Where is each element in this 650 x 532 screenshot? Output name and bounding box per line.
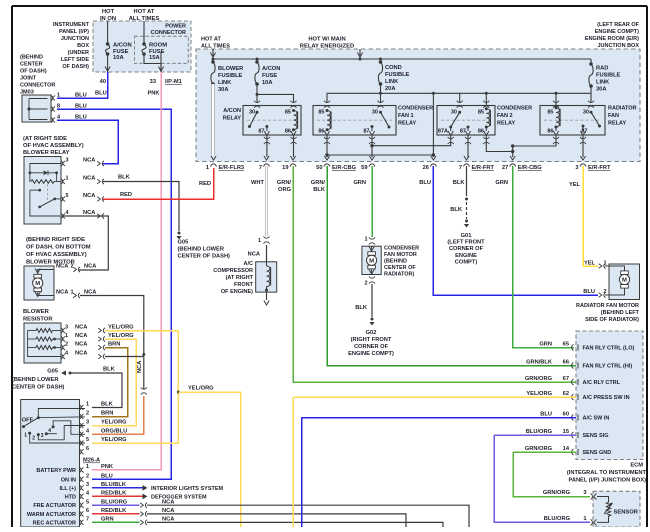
svg-text:NCA: NCA [75, 342, 87, 348]
svg-text:FAN 2: FAN 2 [497, 113, 513, 119]
svg-text:HOT AT: HOT AT [201, 37, 221, 43]
svg-text:BOX: BOX [77, 43, 89, 49]
svg-text:30: 30 [372, 110, 378, 116]
svg-text:20A: 20A [385, 86, 395, 92]
svg-text:RELAY ENERGIZED: RELAY ENERGIZED [300, 44, 354, 50]
svg-text:1: 1 [206, 165, 209, 171]
svg-text:DEFOGGER SYSTEM: DEFOGGER SYSTEM [151, 495, 207, 501]
svg-text:PANEL (I/P) JUNCTION BOX): PANEL (I/P) JUNCTION BOX) [568, 478, 646, 484]
svg-text:G05: G05 [47, 369, 58, 375]
svg-text:7: 7 [459, 165, 462, 171]
svg-text:85: 85 [478, 110, 484, 116]
svg-text:3: 3 [65, 325, 68, 331]
svg-text:85: 85 [285, 110, 291, 116]
svg-text:FAN: FAN [608, 113, 619, 119]
svg-text:OF DASH, ON BOTTOM: OF DASH, ON BOTTOM [26, 245, 91, 251]
svg-text:YEL/ORG: YEL/ORG [526, 391, 552, 397]
svg-text:BLU: BLU [95, 91, 107, 97]
svg-text:GRN/: GRN/ [311, 180, 326, 186]
svg-text:M: M [622, 278, 627, 284]
svg-text:ORG/BLU: ORG/BLU [101, 429, 127, 435]
svg-text:OF DASH): OF DASH) [62, 64, 89, 70]
svg-text:86: 86 [318, 129, 324, 135]
svg-text:10A: 10A [262, 80, 272, 86]
svg-text:33: 33 [150, 79, 156, 85]
svg-text:CONDENSER: CONDENSER [384, 246, 419, 252]
svg-text:67: 67 [563, 376, 569, 382]
svg-text:RELAY: RELAY [223, 116, 241, 122]
svg-text:WHT: WHT [251, 180, 264, 186]
svg-text:HTD: HTD [65, 494, 76, 500]
svg-text:85: 85 [547, 110, 553, 116]
svg-text:66: 66 [563, 360, 569, 366]
svg-text:E/R-CBG: E/R-CBG [518, 165, 543, 171]
svg-text:RESISTOR: RESISTOR [23, 317, 53, 323]
svg-text:PNK: PNK [148, 91, 161, 97]
svg-text:BLK: BLK [313, 187, 326, 193]
svg-text:BATTERY PWR: BATTERY PWR [36, 468, 76, 474]
svg-text:GRN/: GRN/ [277, 180, 292, 186]
svg-text:2: 2 [364, 281, 367, 287]
svg-text:2: 2 [86, 474, 89, 480]
svg-text:60: 60 [563, 412, 569, 418]
svg-text:BRN: BRN [101, 411, 113, 417]
svg-text:SIDE OF RADIATOR): SIDE OF RADIATOR) [585, 317, 639, 323]
svg-text:G02: G02 [366, 330, 377, 336]
svg-text:85: 85 [318, 110, 324, 116]
svg-text:LINK: LINK [596, 80, 610, 86]
svg-text:ON IN: ON IN [61, 477, 76, 483]
svg-text:19: 19 [282, 165, 288, 171]
svg-text:(UNDER: (UNDER [68, 50, 89, 56]
svg-text:NCA: NCA [56, 264, 68, 270]
svg-text:GRN: GRN [539, 342, 552, 348]
svg-text:BLU: BLU [419, 180, 431, 186]
svg-text:SENS SIG: SENS SIG [583, 433, 609, 439]
svg-text:GRN/BLK: GRN/BLK [526, 360, 553, 366]
svg-text:BLOWER RELAY: BLOWER RELAY [23, 150, 70, 156]
svg-text:(BEHIND LOWER: (BEHIND LOWER [12, 377, 58, 383]
svg-text:RADIATOR: RADIATOR [608, 106, 637, 112]
svg-text:YEL/ORG: YEL/ORG [108, 333, 134, 339]
svg-text:ENGINE ROOM (E/R): ENGINE ROOM (E/R) [585, 36, 639, 42]
svg-text:6: 6 [86, 446, 89, 452]
svg-text:CENTER OF: CENTER OF [384, 265, 416, 271]
svg-text:(BEHIND: (BEHIND [384, 259, 407, 265]
svg-text:GRN/ORG: GRN/ORG [525, 446, 553, 452]
svg-text:1: 1 [258, 238, 261, 244]
svg-text:COMPT): COMPT) [455, 259, 478, 265]
svg-text:NCA: NCA [75, 333, 87, 339]
svg-text:NCA: NCA [248, 252, 260, 258]
svg-text:CONDENSER: CONDENSER [398, 106, 433, 112]
svg-text:NCA: NCA [162, 508, 174, 514]
svg-text:A/CON: A/CON [262, 66, 280, 72]
svg-text:30: 30 [583, 110, 589, 116]
svg-text:OF DASH): OF DASH) [20, 69, 47, 75]
svg-text:NCA: NCA [83, 176, 95, 182]
svg-text:CONDENSER: CONDENSER [497, 106, 532, 112]
svg-text:NCA: NCA [162, 499, 174, 505]
svg-text:1: 1 [66, 176, 69, 182]
svg-text:86: 86 [547, 129, 553, 135]
svg-text:1: 1 [364, 237, 367, 243]
svg-text:E/R-CBG: E/R-CBG [332, 165, 357, 171]
svg-text:M: M [35, 281, 40, 287]
svg-text:OFF: OFF [22, 418, 34, 424]
svg-text:GRN/ORG: GRN/ORG [525, 376, 553, 382]
svg-text:CENTER: CENTER [20, 62, 43, 68]
svg-text:OF ENGINE): OF ENGINE) [221, 289, 253, 295]
svg-text:1: 1 [86, 464, 89, 470]
svg-text:G05: G05 [178, 240, 189, 246]
svg-text:M26-A: M26-A [83, 458, 100, 464]
svg-text:NCA: NCA [83, 158, 95, 164]
svg-text:ALL TIMES: ALL TIMES [201, 44, 230, 50]
svg-text:CONNECTOR: CONNECTOR [151, 30, 186, 36]
svg-text:RELAY: RELAY [608, 121, 626, 127]
svg-text:NCA: NCA [56, 290, 68, 296]
svg-text:CENTER OF DASH): CENTER OF DASH) [12, 385, 65, 391]
svg-text:RELAY: RELAY [497, 121, 515, 127]
svg-text:7: 7 [259, 165, 262, 171]
svg-text:COMPRESSOR: COMPRESSOR [213, 268, 253, 274]
svg-text:40: 40 [100, 79, 106, 85]
svg-text:LINK: LINK [218, 80, 232, 86]
svg-text:OF HVAC ASSEMBLY): OF HVAC ASSEMBLY) [23, 143, 84, 149]
svg-text:15: 15 [563, 429, 569, 435]
svg-text:1: 1 [583, 516, 586, 522]
svg-text:E/R-FRT: E/R-FRT [588, 165, 611, 171]
svg-text:HOT: HOT [102, 9, 115, 15]
svg-text:4: 4 [48, 428, 51, 434]
svg-text:YEL/ORG: YEL/ORG [188, 386, 214, 392]
svg-text:6: 6 [86, 508, 89, 514]
svg-text:2: 2 [65, 342, 68, 348]
svg-text:2: 2 [71, 264, 74, 270]
svg-text:(BEHIND LEFT: (BEHIND LEFT [601, 310, 640, 316]
svg-text:I/P-M1: I/P-M1 [165, 79, 182, 85]
svg-text:PNK: PNK [101, 464, 114, 470]
svg-text:15A: 15A [149, 55, 160, 61]
svg-text:GRN: GRN [353, 180, 366, 186]
svg-text:87A: 87A [438, 129, 448, 135]
svg-text:FRONT: FRONT [234, 282, 254, 288]
svg-text:GRN/ORG: GRN/ORG [543, 490, 571, 496]
svg-text:(LEFT FRONT: (LEFT FRONT [447, 240, 485, 246]
svg-text:YEL: YEL [584, 260, 596, 266]
svg-text:5: 5 [86, 499, 89, 505]
svg-text:HOT W/ MAIN: HOT W/ MAIN [308, 37, 345, 43]
svg-text:NCA: NCA [83, 210, 95, 216]
svg-text:ORG: ORG [278, 187, 292, 193]
svg-text:OF HVAC ASSEMBLY): OF HVAC ASSEMBLY) [26, 252, 87, 258]
svg-text:(BEHIND LOWER: (BEHIND LOWER [178, 247, 224, 253]
svg-text:YEL/ORG: YEL/ORG [108, 325, 134, 331]
svg-text:G01: G01 [461, 233, 472, 239]
svg-text:FUSIBLE: FUSIBLE [596, 73, 621, 79]
svg-text:3: 3 [583, 490, 586, 496]
svg-text:WARM ACTUATOR: WARM ACTUATOR [27, 512, 76, 518]
svg-text:A/C PRESS SW IN: A/C PRESS SW IN [583, 395, 630, 401]
svg-text:FAN RLY CTRL (LO): FAN RLY CTRL (LO) [583, 346, 635, 352]
svg-text:HOT AT: HOT AT [134, 9, 155, 15]
svg-text:(BEHIND RIGHT SIDE: (BEHIND RIGHT SIDE [26, 237, 85, 243]
svg-text:86: 86 [478, 129, 484, 135]
svg-text:ROOM: ROOM [149, 43, 167, 49]
svg-text:LINK: LINK [385, 79, 399, 85]
svg-text:POWER: POWER [165, 24, 186, 30]
svg-text:30: 30 [249, 110, 255, 116]
svg-text:REC ACTUATOR: REC ACTUATOR [33, 520, 76, 526]
svg-text:CONNECTOR: CONNECTOR [20, 83, 55, 89]
svg-text:30: 30 [451, 110, 457, 116]
svg-text:RAD: RAD [596, 66, 608, 72]
svg-text:E/R-FLR3: E/R-FLR3 [219, 165, 245, 171]
svg-text:JOINT: JOINT [20, 76, 37, 82]
svg-text:GRN: GRN [495, 180, 508, 186]
svg-text:BLK: BLK [103, 367, 116, 373]
svg-text:BLOWER: BLOWER [23, 309, 50, 315]
svg-text:YEL/ORG: YEL/ORG [101, 437, 127, 443]
svg-text:50: 50 [316, 165, 322, 171]
svg-text:2: 2 [86, 411, 89, 417]
svg-text:3: 3 [41, 433, 44, 439]
svg-text:87: 87 [363, 129, 369, 135]
svg-text:(LEFT REAR OF: (LEFT REAR OF [597, 22, 639, 28]
svg-text:65: 65 [563, 342, 569, 348]
svg-text:59: 59 [361, 165, 367, 171]
svg-text:BLU/ORG: BLU/ORG [544, 516, 571, 522]
svg-text:BLOWER: BLOWER [218, 66, 243, 72]
svg-text:A/C: A/C [244, 261, 254, 267]
svg-text:27: 27 [502, 165, 508, 171]
svg-text:E/R-FRT: E/R-FRT [472, 165, 495, 171]
svg-text:NCA: NCA [162, 517, 174, 523]
svg-text:LEFT SIDE: LEFT SIDE [61, 57, 89, 63]
svg-text:ECM: ECM [630, 463, 643, 469]
svg-text:FUSIBLE: FUSIBLE [218, 73, 243, 79]
svg-text:M: M [369, 258, 374, 264]
svg-text:INSTRUMENT: INSTRUMENT [53, 22, 90, 28]
svg-text:BRN: BRN [108, 342, 120, 348]
svg-text:RELAY: RELAY [398, 121, 416, 127]
svg-text:FRE ACTUATOR: FRE ACTUATOR [33, 503, 76, 509]
svg-text:(AT RIGHT SIDE: (AT RIGHT SIDE [23, 136, 67, 142]
svg-text:3: 3 [86, 420, 89, 426]
svg-text:RED: RED [199, 181, 211, 187]
svg-text:NCA: NCA [137, 361, 143, 373]
svg-text:RADIATOR FAN MOTOR: RADIATOR FAN MOTOR [576, 303, 639, 309]
svg-text:7: 7 [86, 517, 89, 523]
svg-text:(RIGHT FRONT: (RIGHT FRONT [351, 337, 392, 343]
svg-text:62: 62 [563, 391, 569, 397]
svg-text:CORNER OF: CORNER OF [354, 344, 389, 350]
svg-text:ILL (+): ILL (+) [59, 486, 76, 492]
svg-text:FAN RLY CTRL (HI): FAN RLY CTRL (HI) [583, 364, 633, 370]
svg-text:FUSE: FUSE [149, 49, 165, 55]
svg-text:(INTEGRAL TO INSTRUMENT: (INTEGRAL TO INSTRUMENT [567, 470, 647, 476]
svg-text:ENGINE COMPT): ENGINE COMPT) [595, 29, 639, 35]
svg-text:RADIATOR): RADIATOR) [384, 272, 415, 278]
svg-text:FAN 1: FAN 1 [398, 113, 414, 119]
svg-text:BLU: BLU [101, 474, 113, 480]
svg-text:(AT RIGHT: (AT RIGHT [226, 275, 254, 281]
svg-text:BLK: BLK [101, 402, 114, 408]
svg-text:YEL/ORG: YEL/ORG [101, 420, 127, 426]
svg-text:FAN MOTOR: FAN MOTOR [384, 252, 417, 258]
svg-text:1: 1 [65, 333, 68, 339]
svg-text:86: 86 [285, 129, 291, 135]
svg-text:RED: RED [120, 192, 132, 198]
svg-text:NCA: NCA [84, 290, 96, 296]
svg-text:NCA: NCA [75, 351, 87, 357]
svg-text:PANEL (I/P): PANEL (I/P) [59, 29, 89, 35]
svg-text:FUSIBLE: FUSIBLE [385, 72, 410, 78]
svg-text:1: 1 [86, 402, 89, 408]
svg-text:FUSE: FUSE [262, 73, 277, 79]
svg-text:JUNCTION: JUNCTION [61, 36, 89, 42]
svg-text:BLU/ORG: BLU/ORG [526, 429, 553, 435]
svg-text:A/CON: A/CON [223, 108, 241, 114]
svg-text:26: 26 [423, 165, 429, 171]
svg-text:14: 14 [563, 446, 570, 452]
svg-text:10A: 10A [113, 55, 124, 61]
svg-text:NCA: NCA [83, 193, 95, 199]
svg-text:5: 5 [86, 437, 89, 443]
svg-text:COND: COND [385, 65, 402, 71]
svg-text:3: 3 [66, 158, 69, 164]
svg-text:30A: 30A [218, 87, 228, 93]
svg-text:YEL: YEL [569, 182, 581, 188]
svg-text:NCA: NCA [84, 264, 96, 270]
svg-text:ENGINE: ENGINE [455, 253, 477, 259]
svg-text:(BEHIND: (BEHIND [20, 55, 43, 61]
svg-text:BLK: BLK [355, 305, 368, 311]
svg-text:BLU: BLU [583, 289, 595, 295]
svg-text:CORNER OF: CORNER OF [449, 246, 484, 252]
svg-text:87: 87 [460, 129, 466, 135]
svg-text:INTERIOR LIGHTS SYSTEM: INTERIOR LIGHTS SYSTEM [151, 486, 224, 492]
svg-text:BLU: BLU [540, 412, 552, 418]
svg-text:2: 2 [32, 436, 35, 442]
svg-text:BLK: BLK [453, 180, 466, 186]
svg-text:A/C SW IN: A/C SW IN [583, 416, 610, 422]
svg-text:FUSE: FUSE [113, 49, 129, 55]
svg-text:NCA: NCA [75, 325, 87, 331]
svg-text:1: 1 [24, 433, 27, 439]
svg-text:1: 1 [71, 290, 74, 296]
svg-text:ENGINE COMPT): ENGINE COMPT) [348, 351, 394, 357]
svg-text:BLK: BLK [118, 175, 131, 181]
svg-text:87: 87 [258, 129, 264, 135]
svg-text:BLK: BLK [450, 207, 463, 213]
svg-text:3: 3 [575, 165, 578, 171]
svg-text:3: 3 [86, 482, 89, 488]
svg-text:JUNCTION BOX: JUNCTION BOX [597, 43, 639, 49]
svg-text:CENTER OF DASH): CENTER OF DASH) [178, 254, 231, 260]
svg-text:5: 5 [66, 193, 69, 199]
svg-text:A/C RLY CTRL: A/C RLY CTRL [583, 380, 621, 386]
svg-text:SENSOR: SENSOR [614, 509, 639, 515]
svg-text:SENS GND: SENS GND [583, 450, 612, 456]
svg-text:30A: 30A [596, 87, 606, 93]
svg-text:A/CON: A/CON [113, 43, 132, 49]
